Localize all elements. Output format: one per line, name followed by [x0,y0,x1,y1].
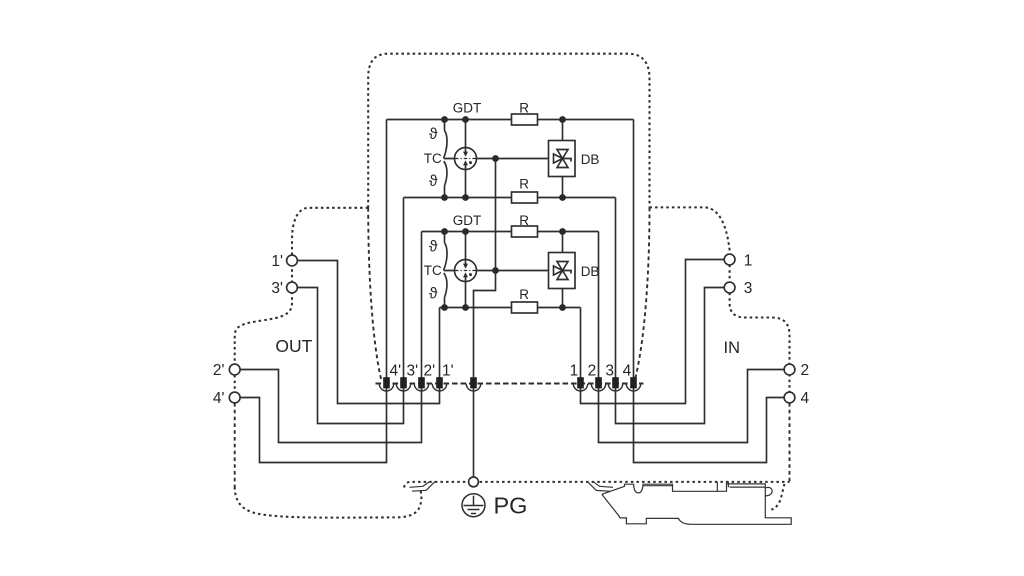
svg-text:R: R [519,100,529,115]
resistor R4 (stage2 bottom) [512,302,538,313]
foot release lever left (mirrored) [410,482,435,492]
cup PG [466,384,480,391]
thermal switch TC2 [444,232,447,308]
cup 4' [379,384,393,391]
suppressor diode DB2 [549,232,576,308]
module enclosure right edge curve (dashed, to pin row) [635,207,650,381]
svg-text:GDT: GDT [453,213,482,228]
wire rail3 left drop to pin 2' [421,232,423,378]
svg-text:ϑ: ϑ [429,239,438,256]
terminal 1' [287,255,298,266]
svg-text:2': 2' [213,362,225,379]
wire TC2 middle [444,270,549,272]
node rail3-DB [559,228,566,235]
wire rail1 left drop to pin 4' [386,120,388,378]
svg-text:DB: DB [581,264,600,279]
cup 3 [608,384,622,391]
svg-text:R: R [519,287,529,302]
foot slot lower lines [643,486,765,487]
svg-text:2': 2' [424,363,436,380]
node rail1-TC [441,116,448,123]
svg-text:ϑ: ϑ [429,286,438,303]
wire terminal 1' to pin 1' [297,261,439,404]
thermal switch TC1 [444,120,447,198]
svg-text:2: 2 [801,362,810,379]
gas discharge tube GDT2 [455,232,477,308]
terminal 4' [229,392,240,403]
node rail1-GDT [462,116,469,123]
protective earth symbol [462,494,485,517]
svg-text:1: 1 [570,363,579,380]
node rail2-TC [441,194,448,201]
svg-text:4: 4 [623,363,632,380]
wire rail 1 (top) [387,119,634,121]
cup 1 [573,384,587,391]
svg-text:R: R [519,213,529,228]
foot rail hook [765,487,772,496]
pin 3 [612,377,619,388]
pin PG [470,377,477,388]
cup 2 [591,384,605,391]
wire rail2 left drop to pin 3' [403,198,405,378]
svg-text:2: 2 [588,363,597,380]
pin 3' [400,377,407,388]
terminal 2' [229,364,240,375]
svg-text:OUT: OUT [275,336,312,356]
pin 2' [418,377,425,388]
module enclosure left edge curve (dashed, to pin row) [368,208,381,380]
wire terminal 4 to pin 4 [634,388,785,463]
cup 3' [396,384,410,391]
svg-text:ϑ: ϑ [429,173,438,190]
svg-text:4': 4' [213,390,225,407]
pin 1' [436,377,443,388]
wire terminal 1 to pin 1 [581,260,725,404]
svg-text:3: 3 [744,280,753,297]
OUT enclosure bottom curl (dotted) [235,487,422,518]
wire terminal 2' to pin 2' [240,370,421,443]
terminal 2 [784,364,795,375]
wire rail 3 [422,231,599,233]
terminal 3' [287,282,298,293]
node rail2-GDT [462,194,469,201]
node rail3-TC [441,228,448,235]
terminal pins group [383,377,637,388]
svg-text:3': 3' [271,280,283,297]
wire rail4 left drop to pin 1' [439,308,441,378]
terminal 3 [724,282,735,293]
wire terminal 3' to pin 3' [297,288,403,424]
wire center junction drop (node to PG pin) [474,159,496,378]
DIN rail foot drawing [410,482,792,525]
foot release lever right [588,482,614,492]
svg-text:1: 1 [744,252,753,269]
wire terminal 4' to pin 4' [240,388,386,463]
OUT enclosure (dotted) [235,208,369,403]
resistor R3 (stage2 top) [512,226,538,237]
terminal cups group [379,384,640,391]
svg-text:3: 3 [605,363,614,380]
IN enclosure (dotted) [650,207,790,403]
node rail4-TC [441,304,448,311]
pin 4 [630,377,637,388]
svg-text:DB: DB [581,152,600,167]
node rail1-DB [559,116,566,123]
OUT enclosure lower left edge (dashed) [234,403,236,487]
foot body [602,482,791,525]
module bottom edge (dotted) [404,482,790,488]
wire rail3 right drop to pin 2 [598,232,600,378]
wire TC1 middle [444,158,549,160]
wire rail2 right drop to pin 3 [615,198,617,378]
IN enclosure lower right edge (dashed) [789,403,791,482]
junction dots group [441,116,566,311]
module enclosure (center, dotted rounded) [368,54,649,208]
wire rail1 right drop to pin 4 [633,120,635,378]
svg-text:3': 3' [407,363,419,380]
dashed terminal row line [376,383,644,385]
svg-text:1': 1' [271,253,283,270]
wire rail4 right drop to pin 1 [580,308,582,378]
svg-text:4: 4 [801,390,810,407]
suppressor diode DB1 [549,120,576,198]
wire terminal 2 to pin 2 [599,370,785,443]
svg-text:4': 4' [390,363,402,380]
resistor R1 (stage1 top) [512,114,538,125]
node rail3-GDT [462,228,469,235]
svg-text:ϑ: ϑ [429,126,438,143]
svg-text:IN: IN [724,339,741,357]
svg-text:PG: PG [494,492,528,518]
wire rail 2 [404,197,616,199]
svg-text:TC: TC [424,151,442,166]
node rail4-DB [559,304,566,311]
PG node circle [469,477,479,487]
node TC2 mid [492,267,499,274]
svg-text:1': 1' [442,363,454,380]
svg-text:GDT: GDT [453,100,482,115]
terminal 4 [784,392,795,403]
wire terminal 3 to pin 3 [616,288,725,424]
cup 2' [414,384,428,391]
cup 1' [432,384,446,391]
node rail2-DB [559,194,566,201]
wire rail 4 [440,307,581,309]
terminal 1 [724,254,735,265]
cup 4 [626,384,640,391]
node TC1 mid [492,155,499,162]
svg-text:R: R [519,177,529,192]
pin 2 [595,377,602,388]
pin 1 [577,377,584,388]
wire PG pin to earth [473,388,475,477]
pin 4' [383,377,390,388]
svg-text:TC: TC [424,263,442,278]
IN enclosure tail (dotted curve to DIN foot) [771,484,784,510]
gas discharge tube GDT1 [455,120,477,198]
resistor R2 (stage1 bottom) [512,192,538,203]
node rail4-GDT [462,304,469,311]
